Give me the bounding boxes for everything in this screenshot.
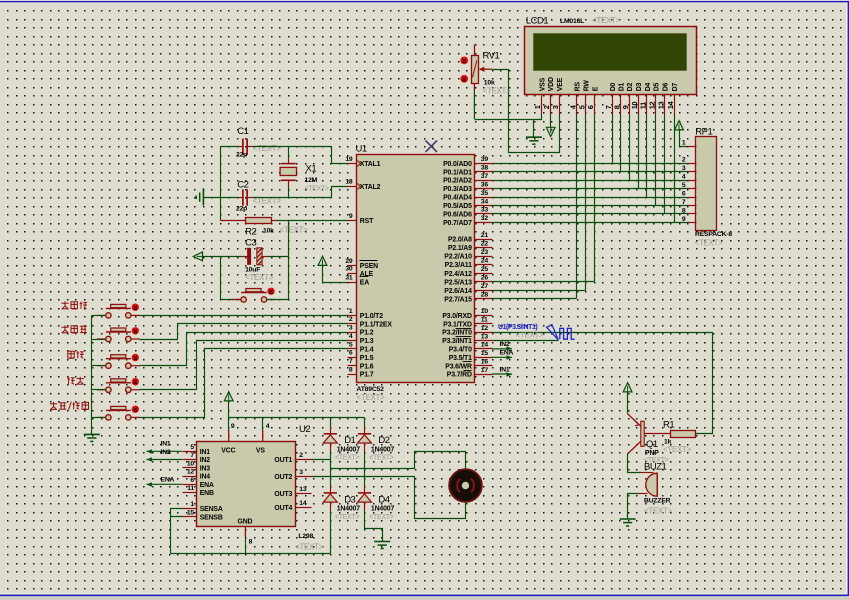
U1 pin 30 ALE stub — [348, 273, 357, 275]
RV1 top pin wire — [474, 45, 476, 56]
svg-text:P0.7/AD7: P0.7/AD7 — [443, 220, 472, 227]
capacitor C2 — [243, 189, 247, 205]
motor M1 — [449, 469, 482, 502]
svg-text:LCD1: LCD1 — [526, 15, 549, 26]
diode D2 1N4007 — [358, 434, 372, 443]
label 开始/停止 (stylized) — [50, 402, 89, 410]
U1 pin 5 P1.4 stub — [348, 348, 357, 350]
svg-text:<TEXT>: <TEXT> — [305, 185, 329, 192]
svg-text:BUZZER: BUZZER — [644, 497, 671, 504]
U1 pin 19 XTAL1 stub — [348, 163, 357, 165]
svg-text:6: 6 — [190, 477, 194, 484]
diode D3 1N4007 — [323, 493, 337, 502]
svg-text:7: 7 — [190, 452, 194, 459]
wire D1 cathode to supply rail — [330, 418, 332, 428]
svg-text:IN1: IN1 — [500, 366, 510, 373]
svg-text:27: 27 — [481, 283, 489, 290]
svg-text:29: 29 — [345, 258, 353, 265]
wire RST node down to C3/reset-button node — [288, 221, 290, 300]
wire R2 to RST pin 9 — [272, 220, 277, 222]
svg-text:D3: D3 — [344, 494, 355, 505]
svg-text:D2: D2 — [627, 82, 634, 91]
svg-text:26: 26 — [481, 275, 489, 282]
svg-text:4: 4 — [682, 174, 686, 181]
U1 pin 4 P1.3 stub — [348, 340, 357, 342]
svg-text:PNP: PNP — [645, 450, 659, 457]
svg-text:P3.1/TXD: P3.1/TXD — [443, 321, 472, 328]
svg-text:1N4007: 1N4007 — [371, 446, 395, 453]
svg-text:VSS: VSS — [539, 77, 546, 91]
ground (sideways) left of C2 — [196, 188, 203, 205]
svg-text:17: 17 — [481, 367, 489, 374]
svg-text:P3.7/RD: P3.7/RD — [447, 372, 472, 379]
wire power to C3 left — [203, 256, 243, 258]
wire button 4 to P1.3 pin 4 — [140, 341, 348, 390]
svg-text:P0.0/AD0: P0.0/AD0 — [443, 161, 472, 168]
svg-text:D4: D4 — [378, 494, 389, 505]
svg-text:P1.0/T2: P1.0/T2 — [360, 313, 383, 320]
svg-text:5: 5 — [682, 182, 686, 189]
XTAL1 clock chevron — [358, 161, 361, 167]
button ground rail — [91, 316, 93, 435]
wire LCD D1 drop — [620, 115, 622, 172]
svg-text:D3: D3 — [636, 82, 643, 91]
svg-text:1N4007: 1N4007 — [337, 506, 361, 513]
svg-text:P1.1/T2EX: P1.1/T2EX — [360, 321, 393, 328]
LCD pin 7 D0 stub — [612, 95, 614, 115]
svg-text:8: 8 — [612, 105, 621, 109]
svg-text:1: 1 — [190, 501, 194, 508]
wire P0.7 bus to RP1 pin 9 — [493, 222, 688, 224]
power terminal — [623, 383, 632, 392]
svg-text:R1: R1 — [663, 419, 674, 430]
svg-text:P1.4: P1.4 — [360, 347, 374, 354]
svg-text:P1.3: P1.3 — [360, 338, 374, 345]
U1 pin 18 XTAL2 stub — [348, 186, 357, 188]
svg-text:SENSA: SENSA — [200, 506, 223, 513]
RP1 pin 5 stub — [688, 188, 697, 190]
svg-text:IN4: IN4 — [200, 474, 211, 481]
svg-text:RP1: RP1 — [695, 126, 712, 137]
svg-text:P2.1/A9: P2.1/A9 — [448, 245, 472, 252]
U1 pin 28 P2.7/A15 stub — [475, 298, 493, 300]
U1 pin 15 P3.5/T1 stub — [475, 357, 493, 359]
svg-text:<TEXT>: <TEXT> — [369, 514, 393, 521]
U1 pin 9 RST stub — [348, 220, 357, 222]
red node marker — [460, 75, 468, 83]
RP1 pin 8 stub — [688, 213, 697, 215]
U1 pin 7 P1.6 stub — [348, 365, 357, 367]
wire R1 to Q1 base — [645, 433, 671, 435]
resistor pack RP1 body — [696, 137, 717, 231]
svg-text:13: 13 — [656, 101, 665, 109]
svg-text:2: 2 — [682, 157, 686, 164]
push button 5 (开始/停止) — [97, 406, 140, 420]
svg-text:P0.4/AD4: P0.4/AD4 — [443, 195, 472, 202]
svg-text:P2.2/A10: P2.2/A10 — [444, 254, 472, 261]
LCD pin 2 VDD stub — [550, 95, 552, 115]
svg-text:6: 6 — [682, 190, 686, 197]
wire LCD D3 drop — [638, 115, 640, 189]
LCD pin 12 D5 stub — [655, 95, 657, 115]
wire LCD VSS to ground — [475, 115, 542, 120]
svg-text:3: 3 — [349, 325, 353, 332]
svg-text:10: 10 — [187, 460, 195, 467]
push button 2 (速度减) — [97, 328, 140, 342]
U1 pin 29 PSEN stub — [348, 265, 357, 267]
U2 pin 9 VCC stub — [228, 430, 230, 442]
svg-text:U1: U1 — [356, 144, 367, 155]
power terminal (left) — [193, 252, 202, 261]
svg-text:39: 39 — [481, 156, 489, 163]
RV1 bottom pin wire to ground rail — [473, 83, 475, 119]
push button 4 (反转) — [97, 379, 140, 393]
svg-text:3: 3 — [682, 165, 686, 172]
U1 pin 25 P2.4/A12 stub — [475, 273, 493, 275]
svg-text:<TEXT>: <TEXT> — [516, 330, 545, 339]
svg-text:23: 23 — [481, 249, 489, 256]
svg-text:21: 21 — [481, 232, 489, 239]
U1 pin 3 P1.2 stub — [348, 332, 357, 334]
wire P0.0 bus to RP1 pin 2 — [493, 163, 688, 165]
wire P0.3 bus to RP1 pin 5 — [493, 188, 688, 190]
svg-text:OUT2: OUT2 — [274, 474, 292, 481]
svg-text:RST: RST — [360, 218, 374, 225]
wire to reset button left terminal — [221, 299, 241, 301]
U2 pin 2 OUT1 stub — [296, 459, 312, 461]
svg-text:18: 18 — [345, 179, 353, 186]
svg-text:2: 2 — [349, 316, 353, 323]
svg-text:ENA: ENA — [200, 482, 214, 489]
svg-text:<TEXT>: <TEXT> — [644, 506, 673, 515]
wire P2.6 to LCD RW — [493, 290, 586, 292]
U1 pin 35 P0.4/AD4 stub — [475, 197, 493, 199]
svg-text:13: 13 — [481, 333, 489, 340]
svg-text:14: 14 — [299, 500, 307, 507]
svg-text:P1.5: P1.5 — [360, 355, 374, 362]
svg-text:37: 37 — [481, 173, 489, 180]
wire P3.5 net ENA tag — [492, 356, 512, 358]
svg-text:<TEXT>: <TEXT> — [280, 226, 309, 235]
svg-text:3: 3 — [551, 105, 560, 109]
wire OUT2 to motor bottom — [312, 477, 466, 519]
red node marker — [460, 57, 468, 65]
svg-text:9: 9 — [682, 216, 686, 223]
ground below buttons — [84, 434, 100, 441]
RP1 pin 4 stub — [688, 180, 697, 182]
wire LCD VDD to power — [550, 115, 552, 128]
svg-text:9: 9 — [621, 105, 630, 109]
U1 pin 32 P0.7/AD7 stub — [475, 222, 493, 224]
diode D4 1N4007 — [358, 493, 372, 502]
actuator dot — [132, 406, 139, 413]
svg-text:35: 35 — [481, 190, 489, 197]
wire C2 left to ground — [204, 197, 239, 199]
LCD pin 13 D6 stub — [664, 95, 666, 115]
U2 pin 4 VS stub — [262, 430, 264, 442]
wire VCC node down to reset button left — [220, 257, 222, 300]
U1 pin 34 P0.5/AD5 stub — [475, 205, 493, 207]
svg-text:ENB: ENB — [200, 490, 214, 497]
svg-text:OUT1: OUT1 — [274, 457, 292, 464]
svg-text:X1: X1 — [306, 164, 317, 175]
svg-text:P3.6/WR: P3.6/WR — [445, 363, 472, 370]
svg-text:<TEXT>: <TEXT> — [483, 86, 512, 95]
wire P2.5 to LCD E — [493, 281, 595, 283]
svg-text:36: 36 — [481, 181, 489, 188]
svg-text:C1: C1 — [237, 126, 248, 137]
RP1 pin 2 stub — [688, 163, 697, 165]
wire power to EA pin 31 — [323, 266, 348, 283]
wire LCD RW drop — [585, 115, 587, 291]
svg-text:P2.3/A11: P2.3/A11 — [445, 262, 472, 269]
svg-text:<TEXT>: <TEXT> — [695, 239, 724, 248]
svg-text:1N4007: 1N4007 — [337, 446, 361, 453]
wire LCD VEE to RV1 wiper — [493, 70, 560, 153]
svg-text:P3.4/T0: P3.4/T0 — [449, 347, 472, 354]
svg-text:P2.0/A8: P2.0/A8 — [448, 237, 472, 244]
INT0 overbar — [456, 328, 472, 330]
wire D2 cathode to supply rail — [364, 418, 366, 428]
svg-text:PSEN: PSEN — [360, 263, 378, 270]
actuator dot — [267, 288, 274, 295]
svg-text:P3.2/INT0: P3.2/INT0 — [442, 330, 472, 337]
svg-text:SENSB: SENSB — [200, 515, 223, 522]
svg-text:P0.1/AD1: P0.1/AD1 — [443, 169, 472, 176]
U2 pin 13 OUT3 stub — [296, 493, 312, 495]
crystal X1 — [280, 164, 296, 181]
svg-text:<TEXT>: <TEXT> — [369, 455, 393, 462]
svg-text:LM016L: LM016L — [560, 18, 584, 25]
svg-text:1N4007: 1N4007 — [371, 506, 395, 513]
wire power to Q1 emitter — [627, 392, 629, 414]
svg-text:22p: 22p — [236, 205, 247, 212]
wire P0.5 bus to RP1 pin 7 — [493, 205, 688, 207]
svg-text:10: 10 — [481, 308, 489, 315]
LCD pin 14 D7 stub — [674, 95, 676, 115]
U1 pin 13 P3.3/INT1 stub — [475, 340, 493, 342]
svg-text:P2.5/A13: P2.5/A13 — [444, 279, 472, 286]
svg-text:R2: R2 — [245, 226, 256, 237]
actuator dot — [132, 327, 139, 334]
wire P3.3 to clock generator — [493, 340, 559, 342]
svg-text:P1.7: P1.7 — [360, 372, 374, 379]
svg-text:GND: GND — [238, 518, 253, 525]
motor driver U2 body (L298) — [197, 442, 296, 527]
LCD pin 1 VSS stub — [541, 95, 543, 115]
RP1 pin 1 stub — [688, 146, 697, 148]
INT1 overbar — [456, 336, 472, 338]
svg-text:C2: C2 — [237, 180, 248, 191]
svg-text:22: 22 — [481, 240, 489, 247]
U1 pin 2 P1.1/T2EX stub — [348, 323, 357, 325]
ground rail vertical (C1-C2-R2) — [220, 147, 222, 221]
wire C1 right to XTAL1 — [248, 146, 253, 148]
push button 3 (正转) — [97, 355, 140, 369]
potentiometer RV1 body — [472, 56, 479, 84]
power terminal (down) — [546, 127, 555, 136]
U1 pin 10 P3.0/RXD stub — [475, 315, 493, 317]
svg-text:<TEXT>: <TEXT> — [253, 144, 282, 153]
wire D3 anode to ground rail — [330, 503, 332, 511]
U1 pin 6 P1.5 stub — [348, 357, 357, 359]
svg-text:Q1: Q1 — [646, 439, 658, 450]
svg-text:11: 11 — [187, 485, 194, 492]
U1 pin 36 P0.3/AD3 stub — [475, 188, 493, 190]
RP1 pin 6 stub — [688, 197, 697, 199]
wire P0.6 bus to RP1 pin 8 — [493, 213, 688, 215]
wire LCD D7 drop — [674, 115, 676, 223]
actuator dot — [132, 378, 139, 385]
wire button 2 to P1.1 pin 2 — [140, 324, 348, 340]
label 速度减 (stylized) — [61, 325, 87, 333]
ground rail below U2 — [171, 538, 331, 554]
wire node A to motor top — [331, 452, 466, 469]
capacitor C1 — [243, 139, 247, 155]
svg-text:VCC: VCC — [221, 448, 235, 455]
WR overbar — [463, 361, 472, 363]
svg-text:VDD: VDD — [548, 77, 555, 91]
svg-text:D0: D0 — [610, 82, 617, 91]
push button 1 (速度加) — [97, 304, 140, 318]
svg-text:4: 4 — [349, 333, 353, 340]
wire P0.1 bus to RP1 pin 3 — [493, 171, 688, 173]
svg-text:EA: EA — [360, 280, 369, 287]
U1 pin 11 P3.1/TXD stub — [475, 323, 493, 325]
svg-text:P2.6/A14: P2.6/A14 — [444, 288, 472, 295]
U1 pin 26 P2.5/A13 stub — [475, 281, 493, 283]
svg-text:D4: D4 — [645, 82, 652, 91]
svg-text:P3.0/RXD: P3.0/RXD — [442, 313, 472, 320]
svg-text:12: 12 — [187, 469, 195, 476]
svg-text:12: 12 — [481, 325, 489, 332]
wire crystal bottom to XTAL2 net — [288, 181, 290, 187]
svg-text:<TEXT>: <TEXT> — [663, 445, 692, 454]
wire P3.2 to R1 (buzzer drive) — [493, 333, 713, 434]
power terminal — [675, 121, 684, 130]
U1 pin 17 P3.7/RD stub — [475, 374, 493, 376]
svg-text:10: 10 — [630, 101, 639, 109]
wire LCD E drop — [594, 115, 596, 282]
svg-text:XTAL1: XTAL1 — [360, 161, 381, 168]
svg-text:D7: D7 — [672, 82, 679, 91]
svg-text:D5: D5 — [654, 82, 661, 91]
wire power to U2 VCC and VS — [229, 401, 365, 431]
svg-text:D1: D1 — [344, 435, 355, 446]
LCD pin 6 E stub — [594, 95, 596, 115]
EA overbar — [360, 276, 369, 278]
diode D1 1N4007 — [323, 434, 337, 443]
svg-text:5: 5 — [349, 341, 353, 348]
LCD pin 9 D2 stub — [629, 95, 631, 115]
svg-text:OUT4: OUT4 — [274, 505, 292, 512]
U1 pin 27 P2.6/A14 stub — [475, 290, 493, 292]
svg-text:2: 2 — [542, 105, 551, 109]
svg-text:E: E — [592, 86, 599, 91]
wire button 5 to P1.4 pin 5 — [140, 349, 348, 418]
svg-text:VEE: VEE — [557, 77, 564, 91]
svg-text:28: 28 — [481, 292, 489, 299]
U1 pin 23 P2.2/A10 stub — [475, 256, 493, 258]
svg-text:P0.5/AD5: P0.5/AD5 — [443, 203, 472, 210]
LCD pin 10 D3 stub — [638, 95, 640, 115]
svg-text:22p: 22p — [236, 152, 247, 159]
svg-text:BUZ1: BUZ1 — [644, 461, 667, 472]
svg-text:3: 3 — [299, 469, 303, 476]
U2 pin 12 IN4 stub — [183, 476, 197, 478]
U2 pin 5 IN1 stub — [183, 451, 197, 453]
U2 pin 8 GND stub — [244, 526, 246, 537]
RP1 pin 9 stub — [688, 222, 697, 224]
svg-text:<TEXT>: <TEXT> — [245, 273, 274, 282]
svg-text:RV1: RV1 — [483, 51, 500, 62]
wire LCD D6 drop — [664, 115, 666, 214]
svg-text:P1.6: P1.6 — [360, 363, 374, 370]
svg-text:5: 5 — [190, 444, 194, 451]
svg-text:<TEXT>: <TEXT> — [295, 543, 324, 552]
svg-text:33: 33 — [481, 207, 489, 214]
svg-text:VS: VS — [256, 448, 265, 455]
svg-text:P1.2: P1.2 — [360, 330, 374, 337]
svg-text:IN2: IN2 — [161, 449, 171, 456]
PSEN overbar — [360, 260, 378, 262]
wire C2 right to XTAL2 — [248, 197, 253, 199]
net tag ENA into U2 — [147, 483, 183, 485]
U2 pin 1 SENSA stub — [183, 508, 197, 510]
svg-text:P2.4/A12: P2.4/A12 — [444, 271, 472, 278]
svg-text:P0.6/AD6: P0.6/AD6 — [443, 212, 472, 219]
svg-text:31: 31 — [345, 274, 353, 281]
svg-text:6: 6 — [349, 350, 353, 357]
wire OUT1 to H-bridge node A — [312, 459, 331, 461]
svg-text:12: 12 — [647, 101, 656, 109]
svg-text:IN1: IN1 — [200, 449, 211, 456]
wire crystal top to XTAL1 net — [288, 147, 290, 159]
svg-text:8: 8 — [249, 538, 253, 545]
svg-text:P0.2/AD2: P0.2/AD2 — [443, 178, 472, 185]
svg-text:12M: 12M — [305, 177, 318, 184]
U1 pin 21 P2.0/A8 stub — [475, 239, 493, 241]
LCD pin 4 RS stub — [576, 95, 578, 115]
svg-text:L298: L298 — [298, 533, 313, 540]
svg-text:1: 1 — [349, 308, 353, 315]
reset push button — [232, 289, 275, 303]
svg-text:13: 13 — [299, 486, 307, 493]
wire P3.4 net IN2 tag — [492, 348, 512, 350]
U2 pin 11 ENB stub — [183, 492, 197, 494]
wire D1 anode to D3 cathode — [330, 444, 332, 452]
wire button 1 left to rail — [92, 315, 106, 317]
svg-text:RS: RS — [575, 81, 582, 91]
clock generator symbol (DCLOCK) — [547, 325, 575, 340]
svg-text:4: 4 — [266, 423, 270, 430]
svg-text:5: 5 — [577, 105, 586, 109]
svg-text:10k: 10k — [263, 227, 274, 234]
U1 pin 39 P0.0/AD0 stub — [475, 163, 493, 165]
LCD pin 3 VEE stub — [559, 95, 561, 115]
wire P2.7 to LCD RS — [493, 298, 577, 300]
wire R2 left lead — [221, 220, 246, 222]
svg-text:7: 7 — [682, 199, 686, 206]
wire D4 anode to ground — [364, 503, 366, 511]
svg-text:14: 14 — [666, 100, 675, 109]
LCD pin 5 RW stub — [585, 95, 587, 115]
RD overbar — [464, 370, 472, 372]
U1 pin 16 P3.6/WR stub — [475, 365, 493, 367]
wire SENSA/SENSB to ground rail — [171, 509, 183, 554]
buzzer BUZ1 — [646, 473, 658, 496]
svg-text:<TEXT>: <TEXT> — [357, 393, 386, 402]
